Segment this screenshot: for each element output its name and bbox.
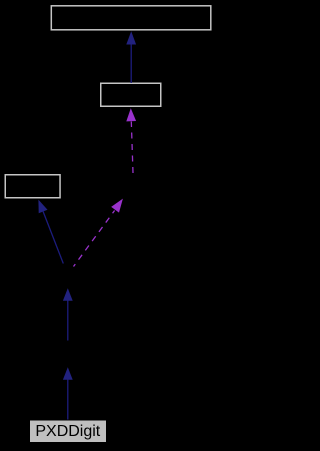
- node box PXDDigit (current class, grey fill): [30, 420, 107, 443]
- inheritance arrow E2: hidden node B -> box3 (solid diagonal): [38, 200, 63, 264]
- usage arrow E4 (dashed diagonal): hidden node B -> hidden node A: [74, 199, 123, 267]
- node box 1 (top class box): [51, 6, 211, 30]
- node box 3 (left class box): [5, 175, 60, 198]
- inheritance arrow E5: hidden node C -> hidden node B (solid vertical): [63, 288, 73, 340]
- svg-text:PXDDigit: PXDDigit: [35, 423, 100, 440]
- inheritance arrow E1: box2 -> box1 (solid): [126, 31, 136, 83]
- node box 2 (middle class box): [101, 83, 161, 106]
- usage arrow E3 (dashed): hidden node A -> box2: [126, 108, 136, 173]
- inheritance arrow E6: PXDDigit -> hidden node C (solid vertical): [63, 367, 73, 419]
